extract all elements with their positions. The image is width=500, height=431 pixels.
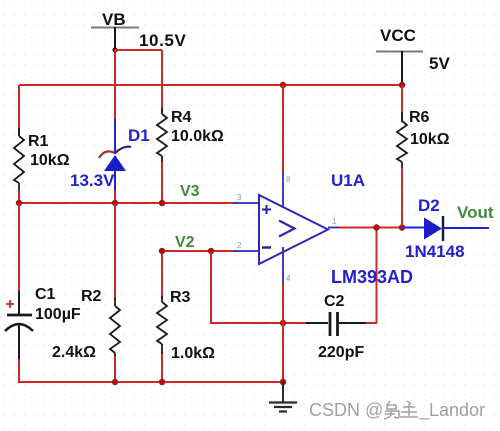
node V3 junction R1 — [16, 200, 22, 206]
svg-text:2.4kΩ: 2.4kΩ — [52, 344, 96, 361]
junction bottom ground — [280, 379, 286, 385]
svg-text:VB: VB — [102, 10, 126, 29]
zener cathode curve right — [115, 147, 131, 153]
power symbol VCC — [376, 26, 423, 85]
pin 1 stub — [328, 227, 341, 229]
wire R6 top — [401, 85, 403, 122]
junction bottom R3 — [159, 379, 165, 385]
junction output R6 — [399, 224, 405, 230]
zener cathode curve left — [99, 151, 115, 158]
svg-text:220pF: 220pF — [318, 344, 364, 361]
svg-text:V2: V2 — [175, 234, 195, 251]
pin 8 stub — [282, 172, 284, 212]
svg-text:_Landor: _Landor — [418, 400, 485, 421]
pin 4 stub — [282, 247, 284, 285]
svg-text:10.5V: 10.5V — [139, 31, 186, 50]
svg-text:2: 2 — [237, 241, 242, 250]
svg-text:1: 1 — [332, 217, 337, 226]
svg-text:Vout: Vout — [457, 203, 494, 222]
svg-text:8: 8 — [286, 175, 291, 184]
junction VCC rail R6 — [399, 82, 405, 88]
resistor R2 — [52, 288, 120, 361]
svg-text:R2: R2 — [81, 288, 102, 305]
svg-text:C1: C1 — [35, 286, 56, 303]
wire VCC rail horizontal — [19, 84, 402, 86]
svg-text:R4: R4 — [171, 109, 192, 126]
svg-text:13.3V: 13.3V — [70, 171, 115, 190]
resistor R3 — [157, 289, 215, 362]
svg-text:1N4148: 1N4148 — [405, 242, 465, 261]
svg-text:10kΩ: 10kΩ — [410, 131, 450, 148]
wire pin4 to ground — [282, 283, 284, 400]
wire R1 bottom — [18, 190, 20, 204]
wire R2 top — [114, 203, 116, 300]
svg-text:1.0kΩ: 1.0kΩ — [171, 345, 215, 362]
wire V3 horizontal — [19, 202, 236, 204]
junction feedback ground-line — [280, 320, 286, 326]
svg-text:10kΩ: 10kΩ — [30, 152, 70, 169]
resistor R6 — [397, 109, 450, 170]
node V2 junction R3 — [159, 248, 165, 254]
svg-text:D2: D2 — [418, 196, 440, 215]
resistor R4 — [157, 108, 224, 164]
resistor R1 — [14, 128, 70, 192]
wire output horizontal — [340, 227, 404, 229]
wire bottom rail — [19, 381, 283, 383]
diode D2 — [402, 196, 489, 261]
wire feedback horizontal — [210, 322, 308, 324]
wire R3 bottom — [161, 354, 163, 383]
zener diode D1 — [70, 119, 150, 192]
op-amp U1A — [259, 171, 413, 287]
wire C2 right to output — [366, 322, 377, 324]
wire R4 bottom — [161, 162, 163, 204]
svg-text:D1: D1 — [128, 126, 150, 145]
wire R1 top vertical — [18, 85, 20, 135]
svg-text:R6: R6 — [409, 109, 430, 126]
wire feedback vertical right — [376, 227, 378, 323]
svg-text:10.0kΩ: 10.0kΩ — [171, 128, 224, 145]
pin 3 stub — [234, 202, 259, 204]
svg-text:5V: 5V — [429, 54, 450, 73]
junction output feedback — [373, 224, 379, 230]
capacitor C1 — [5, 286, 81, 361]
svg-text:100µF: 100µF — [35, 306, 81, 323]
svg-text:R1: R1 — [28, 133, 49, 150]
svg-text:CSDN @: CSDN @ — [309, 400, 383, 420]
wire left column to C1 — [18, 203, 20, 293]
junction bottom R2 — [112, 379, 118, 385]
node V3 junction R4 — [159, 200, 165, 206]
node V3 junction D1 — [112, 200, 118, 206]
junction pin8 rail — [280, 82, 286, 88]
wire R4 top vertical — [161, 50, 163, 112]
svg-text:R3: R3 — [170, 289, 191, 306]
pin 2 stub — [234, 250, 259, 252]
power symbol VB — [91, 10, 139, 50]
svg-text:4: 4 — [286, 274, 291, 283]
wire C1 bottom — [18, 359, 20, 383]
wire R2 bottom — [114, 356, 116, 383]
wire pin8 vertical red — [282, 85, 284, 173]
node VB junction — [112, 47, 117, 52]
wire R6 bottom — [401, 168, 403, 228]
svg-text:3: 3 — [237, 193, 242, 202]
wire D1 top vertical — [114, 50, 116, 121]
node V2 junction feedback — [208, 248, 214, 254]
wire V2 horizontal — [162, 250, 236, 252]
ground — [269, 382, 297, 412]
watermark CSDN — [309, 400, 485, 421]
svg-text:V3: V3 — [180, 183, 200, 200]
capacitor C2 — [306, 293, 368, 361]
svg-text:LM393AD: LM393AD — [331, 267, 413, 287]
wire VB to R4 branch horizontal — [115, 49, 162, 51]
wire D1 bottom — [114, 190, 116, 204]
svg-text:U1A: U1A — [331, 171, 365, 190]
wire feedback vertical left — [210, 251, 212, 324]
svg-text:VCC: VCC — [380, 26, 416, 45]
svg-text:C2: C2 — [324, 293, 345, 310]
wire R3 top — [161, 251, 163, 298]
